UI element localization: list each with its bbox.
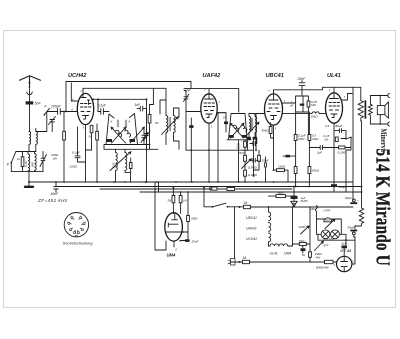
- ground: [28, 182, 30, 186]
- capacitor 25nF top: [299, 81, 305, 96]
- oscillator coil arrow: [162, 117, 179, 135]
- svg-text:4TF: 4TF: [324, 244, 329, 248]
- svg-text:25nF: 25nF: [237, 151, 245, 155]
- wire osc top: [166, 100, 179, 117]
- B+ vertical: [352, 87, 354, 200]
- IFT2 secondary capacitor b: [253, 137, 258, 140]
- wire antenna down: [29, 95, 31, 132]
- socket pins: [67, 216, 87, 237]
- IFT2 bandfilter: [229, 114, 248, 140]
- lower mains rail: [230, 261, 337, 263]
- capacitor osc coupling: [189, 125, 193, 128]
- trimmer capacitor AGC: [184, 91, 190, 112]
- svg-text:2MΩ: 2MΩ: [190, 217, 198, 221]
- resistor osc grid: [148, 115, 151, 124]
- antenna coil L1: [29, 132, 31, 145]
- resistor det d: [244, 170, 247, 176]
- heater UBC41: [269, 212, 271, 221]
- resistor 1MOhm b: [308, 135, 311, 141]
- mains switch: [212, 206, 214, 208]
- svg-text:25nF: 25nF: [191, 240, 199, 244]
- wire switch down: [36, 112, 47, 132]
- resistor NTC 52 Ohm: [299, 242, 306, 245]
- svg-text:0,2μF: 0,2μF: [98, 103, 107, 107]
- resistor cathode: [90, 125, 93, 133]
- capacitor 100uF cathode: [331, 184, 337, 187]
- choke coupling: [283, 112, 326, 114]
- cathode capacitor 50uF: [334, 129, 346, 133]
- IFT2 coil a: [233, 125, 239, 131]
- svg-text:UBC41: UBC41: [266, 73, 284, 79]
- heater chain right: [292, 207, 294, 246]
- wire IFT1 right drop: [146, 99, 148, 113]
- wire to fuse: [228, 206, 244, 208]
- wire osc: [86, 149, 92, 151]
- svg-text:50: 50: [155, 121, 159, 125]
- svg-text:50kΩ: 50kΩ: [312, 169, 320, 173]
- svg-text:4W: 4W: [316, 255, 321, 259]
- svg-text:200pF: 200pF: [50, 104, 62, 108]
- trimmer capacitor 50pF: [49, 117, 56, 132]
- svg-text:0,10: 0,10: [24, 161, 28, 167]
- bottom bus 2: [56, 186, 362, 188]
- capacitor 0,2uF: [98, 109, 109, 115]
- UBC41 top pin: [274, 87, 361, 94]
- svg-text:1A: 1A: [243, 256, 247, 260]
- trimmer capacitor input: [40, 152, 47, 172]
- IFT1 fixed capacitor a: [107, 139, 113, 142]
- oscillator coil d: [174, 113, 176, 137]
- tube UBC41: [265, 94, 283, 125]
- antenna: [20, 76, 41, 88]
- capacitor det a: [250, 142, 256, 151]
- UCH42 anode wire: [93, 98, 147, 100]
- UCH42 top pin: [82, 88, 84, 94]
- IFT2 fixed capacitor b: [242, 135, 247, 138]
- top bus A: [66, 82, 191, 89]
- input rail top: [16, 151, 36, 153]
- filter choke: [355, 208, 364, 226]
- svg-text:2μF: 2μF: [316, 151, 322, 155]
- capacitor 5nF: [26, 101, 34, 104]
- capacitor 0,1uF osc: [75, 127, 86, 162]
- antenna coil L2: [36, 129, 38, 152]
- svg-text:UM4: UM4: [284, 252, 291, 256]
- svg-text:1MΩ: 1MΩ: [298, 137, 305, 141]
- anode loop capacitor: [300, 104, 304, 106]
- svg-text:600Ω/4W: 600Ω/4W: [316, 266, 330, 270]
- wire AGC line: [186, 149, 254, 151]
- UBC41 bottom pin: [273, 125, 275, 170]
- svg-text:150Ω: 150Ω: [70, 165, 78, 169]
- svg-text:UAF42: UAF42: [203, 73, 222, 79]
- heater UAF42: [269, 223, 271, 232]
- loudspeaker: [377, 106, 385, 115]
- wire grid line: [57, 111, 78, 113]
- UAF42 bottom pin: [208, 123, 210, 182]
- svg-text:U787: U787: [324, 209, 331, 213]
- volume potentiometer 0,5MOhm: [242, 159, 252, 169]
- coil L4: [35, 152, 37, 172]
- bus junction dots: [55, 181, 335, 193]
- wire grid drop from top bus: [65, 82, 67, 112]
- svg-text:0,05: 0,05: [111, 162, 115, 168]
- IFT2 secondary arrow: [246, 122, 259, 136]
- IFT2 secondary drop: [238, 140, 240, 182]
- svg-text:UL41: UL41: [270, 252, 278, 256]
- oscillator trimmer: [141, 130, 148, 145]
- wire right vertical: [361, 191, 363, 193]
- wire primary bottom: [360, 121, 363, 208]
- svg-text:5nF: 5nF: [35, 102, 42, 106]
- speaker terminal hooks: [388, 93, 390, 126]
- svg-text:40nF: 40nF: [51, 192, 60, 196]
- resistor 600 Ohm lower: [325, 260, 334, 263]
- svg-text:2M: 2M: [167, 199, 172, 203]
- capacitor block th: [301, 248, 306, 251]
- mains terminals: [239, 206, 241, 208]
- svg-text:ZF=451 kHz: ZF=451 kHz: [37, 198, 68, 203]
- oscillator coil b: [125, 149, 131, 182]
- UM4 bottom pin: [173, 241, 175, 247]
- capacitor 25nF IF: [224, 122, 228, 125]
- resistor 20kOhm: [277, 169, 285, 172]
- wire det: [246, 140, 248, 150]
- wire lamp return: [318, 234, 355, 264]
- electrolytic 50uF upper: [351, 202, 357, 204]
- IFT2 secondary coil b: [255, 114, 257, 137]
- wire osc bottom: [166, 137, 179, 150]
- wire secondary to det: [249, 114, 257, 151]
- variable resistor 220 Ohm: [301, 207, 311, 262]
- svg-text:K: K: [111, 120, 113, 124]
- trimmer padder: [144, 129, 151, 149]
- mains plug: [228, 259, 235, 266]
- resistor 2MOhm feedback: [276, 195, 286, 198]
- svg-text:8μF: 8μF: [342, 242, 347, 246]
- wire pin4 drop: [71, 83, 77, 101]
- switch K: [11, 152, 16, 163]
- speaker wires: [370, 96, 387, 125]
- anode loop resistor: [307, 101, 310, 107]
- cathode resistor: [335, 137, 338, 142]
- svg-text:25nF: 25nF: [297, 77, 307, 81]
- oscillator arrow: [110, 152, 131, 171]
- UBC41 anode loop: [283, 96, 309, 135]
- resistor 0,1MOhm tone: [339, 146, 346, 149]
- tone switch: [341, 137, 351, 148]
- UL41 top pin: [333, 87, 335, 93]
- wire feedback: [269, 195, 296, 197]
- tube UCH42: [77, 93, 93, 124]
- resistor grid leak: [63, 131, 66, 140]
- IFT2 secondary capacitor a: [246, 137, 251, 140]
- UCH42 internals: [81, 94, 90, 105]
- svg-text:UCH42: UCH42: [246, 237, 257, 241]
- wire switch to bottom rail: [10, 163, 12, 172]
- svg-text:UY 41: UY 41: [340, 248, 352, 253]
- fuse resistor bus a: [210, 187, 211, 190]
- UAF42 anode wire: [217, 112, 226, 114]
- heater UCH42: [269, 233, 271, 246]
- svg-text:20kΩ: 20kΩ: [277, 165, 286, 169]
- resistor UM4 grid b: [179, 195, 182, 202]
- UM4 left wire: [155, 182, 166, 250]
- svg-text:PH05: PH05: [301, 199, 308, 203]
- capacitor 1uF mains: [291, 196, 298, 199]
- resistor 1MOhm a: [294, 135, 297, 141]
- output transformer secondary: [369, 96, 373, 125]
- resistor 95kOhm cathode: [269, 127, 272, 134]
- wire screen return: [217, 113, 219, 182]
- IFT2 arrows: [231, 123, 244, 138]
- svg-text:50μF: 50μF: [345, 196, 352, 200]
- svg-text:UBC41: UBC41: [246, 216, 257, 220]
- tube pin numbers: [72, 89, 355, 267]
- svg-text:0,1μF: 0,1μF: [72, 151, 80, 155]
- svg-text:0,5MΩ: 0,5MΩ: [248, 166, 258, 170]
- heater UM4: [279, 244, 293, 246]
- heater chain left: [268, 207, 270, 212]
- IFT2 secondary coil a: [249, 114, 251, 137]
- UL41 anode wire: [343, 94, 353, 101]
- variable resistor NTC2: [315, 241, 324, 250]
- capacitor 2uF: [309, 145, 337, 149]
- resistor lower a: [294, 167, 297, 174]
- svg-text:Sockelschaltung: Sockelschaltung: [63, 241, 94, 246]
- svg-text:UL41: UL41: [327, 73, 341, 79]
- junction dots bus: [145, 181, 147, 183]
- svg-text:50μF: 50μF: [348, 226, 355, 230]
- capacitor 40nF: [54, 182, 58, 192]
- UL41 cathode: [333, 123, 335, 192]
- fuse NSF: [316, 206, 318, 220]
- svg-text:2,9: 2,9: [324, 124, 330, 128]
- svg-text:220Ω: 220Ω: [298, 225, 307, 229]
- UAF42 top pin: [208, 89, 210, 94]
- coupling capacitors 0,25uF: [264, 157, 266, 182]
- tube UAF42: [201, 94, 217, 123]
- output transformer core: [364, 101, 366, 118]
- node ground junction: [28, 181, 30, 183]
- output transformer primary: [358, 87, 363, 121]
- resistor lower b: [308, 167, 311, 174]
- wire anode drop: [97, 99, 99, 111]
- top wire right: [184, 89, 245, 114]
- IFT2 coil b: [241, 125, 247, 131]
- capacitor det b: [250, 158, 258, 162]
- svg-text:1A: 1A: [244, 201, 248, 205]
- IFT1 bandfilter: [106, 114, 138, 145]
- bottom input rail: [11, 171, 42, 173]
- UAF42 internals: [205, 95, 214, 100]
- IFT1 coil a: [116, 130, 122, 137]
- svg-text:UCH42: UCH42: [68, 73, 87, 79]
- dial lamp 2: [331, 230, 340, 239]
- bottom bus 3: [100, 188, 292, 190]
- resistor UM4 grid a: [172, 195, 175, 202]
- svg-text:2MΩ: 2MΩ: [277, 191, 285, 195]
- svg-text:1nF: 1nF: [135, 103, 142, 107]
- band switch K2: [44, 108, 57, 115]
- svg-text:NSF: NSF: [310, 207, 316, 211]
- variable tap arrow: [325, 219, 335, 228]
- svg-text:080: 080: [31, 162, 35, 167]
- lamp loop wires: [317, 219, 347, 246]
- coil L3: [28, 152, 30, 172]
- bottom bus 4: [140, 191, 362, 193]
- IFT2 secondary core: [252, 118, 253, 131]
- fuse 1A upper: [244, 205, 251, 208]
- resistor 330 Ohm: [309, 252, 312, 257]
- svg-text:1MΩ: 1MΩ: [312, 137, 319, 141]
- svg-text:50: 50: [89, 135, 93, 139]
- capacitor 1nF: [137, 106, 147, 111]
- resistor 2MOhm UM4: [187, 216, 190, 222]
- svg-text:10kΩ: 10kΩ: [311, 115, 319, 119]
- capacitor 200pF: [58, 109, 61, 115]
- wire upper rail: [251, 206, 354, 208]
- resistor input: [21, 157, 24, 167]
- wire AGC drop: [253, 150, 255, 176]
- UCH42 bottom pin: [85, 125, 87, 183]
- oscillator coil a: [116, 149, 118, 182]
- IFT1 bottom wires: [104, 109, 158, 182]
- resistor det a: [244, 155, 247, 161]
- tube UY41: [337, 256, 352, 271]
- UM4 internals: [166, 214, 188, 233]
- UBC41 grid wire: [256, 114, 265, 151]
- wire plug vertical: [234, 207, 236, 258]
- dial lamp 1: [321, 230, 330, 239]
- tube UM4: [165, 213, 183, 241]
- UL41 internals: [330, 94, 339, 99]
- tube socket circle: [64, 213, 88, 237]
- wire stub: [158, 182, 160, 192]
- capacitor 25nF UM4: [185, 239, 190, 242]
- capacitor 8uF: [342, 246, 348, 249]
- svg-text:+: +: [357, 199, 359, 203]
- svg-text:NTC: NTC: [325, 218, 330, 222]
- IFT1 coil b: [125, 130, 131, 137]
- oscillator coil core: [169, 117, 170, 131]
- resistor det 25k: [244, 141, 247, 147]
- wire tone down: [346, 131, 351, 192]
- svg-text:K: K: [129, 120, 131, 124]
- antenna plug connector: [27, 89, 32, 95]
- resistor det c: [258, 155, 261, 161]
- earth triangle: [291, 201, 297, 206]
- svg-text:TH: TH: [302, 253, 306, 257]
- svg-text:52Ω: 52Ω: [299, 239, 305, 243]
- wire coil to ground: [28, 172, 30, 182]
- IFT1 arrows: [112, 127, 126, 143]
- heater UL41: [269, 244, 279, 246]
- wire coil to rail: [28, 144, 30, 151]
- svg-text:95kΩ: 95kΩ: [262, 129, 270, 133]
- IFT2 fixed capacitor a: [229, 135, 234, 138]
- svg-text:514 K Mirando U: 514 K Mirando U: [372, 149, 395, 266]
- svg-text:0,25μF: 0,25μF: [259, 159, 270, 163]
- fuse resistor bus b: [227, 188, 235, 191]
- tube UL41: [326, 93, 343, 123]
- UY41 internals: [341, 256, 348, 271]
- svg-text:MΩ: MΩ: [311, 103, 316, 107]
- fuse 1A lower: [243, 260, 250, 263]
- oscillator coil c: [166, 113, 168, 137]
- wire AGC grid: [186, 112, 201, 151]
- svg-text:UM4: UM4: [167, 253, 177, 258]
- svg-text:UAF42: UAF42: [246, 227, 257, 231]
- bottom bus 1: [29, 181, 353, 183]
- IFT2 bottom wire: [227, 139, 251, 141]
- top bus C: [83, 88, 166, 114]
- wire UY41 right: [352, 263, 355, 265]
- IFT1 core lines: [117, 120, 127, 127]
- UBC41 internals: [269, 95, 278, 100]
- svg-text:nF: nF: [290, 103, 294, 107]
- electrolytic 50uF lower: [351, 230, 357, 232]
- resistor osc feedback: [129, 163, 132, 169]
- resistor screen: [96, 131, 99, 140]
- wire to mains switch: [204, 188, 213, 207]
- capacitor 0,1uF left: [286, 155, 291, 158]
- IFT1 fixed capacitor b: [130, 139, 136, 142]
